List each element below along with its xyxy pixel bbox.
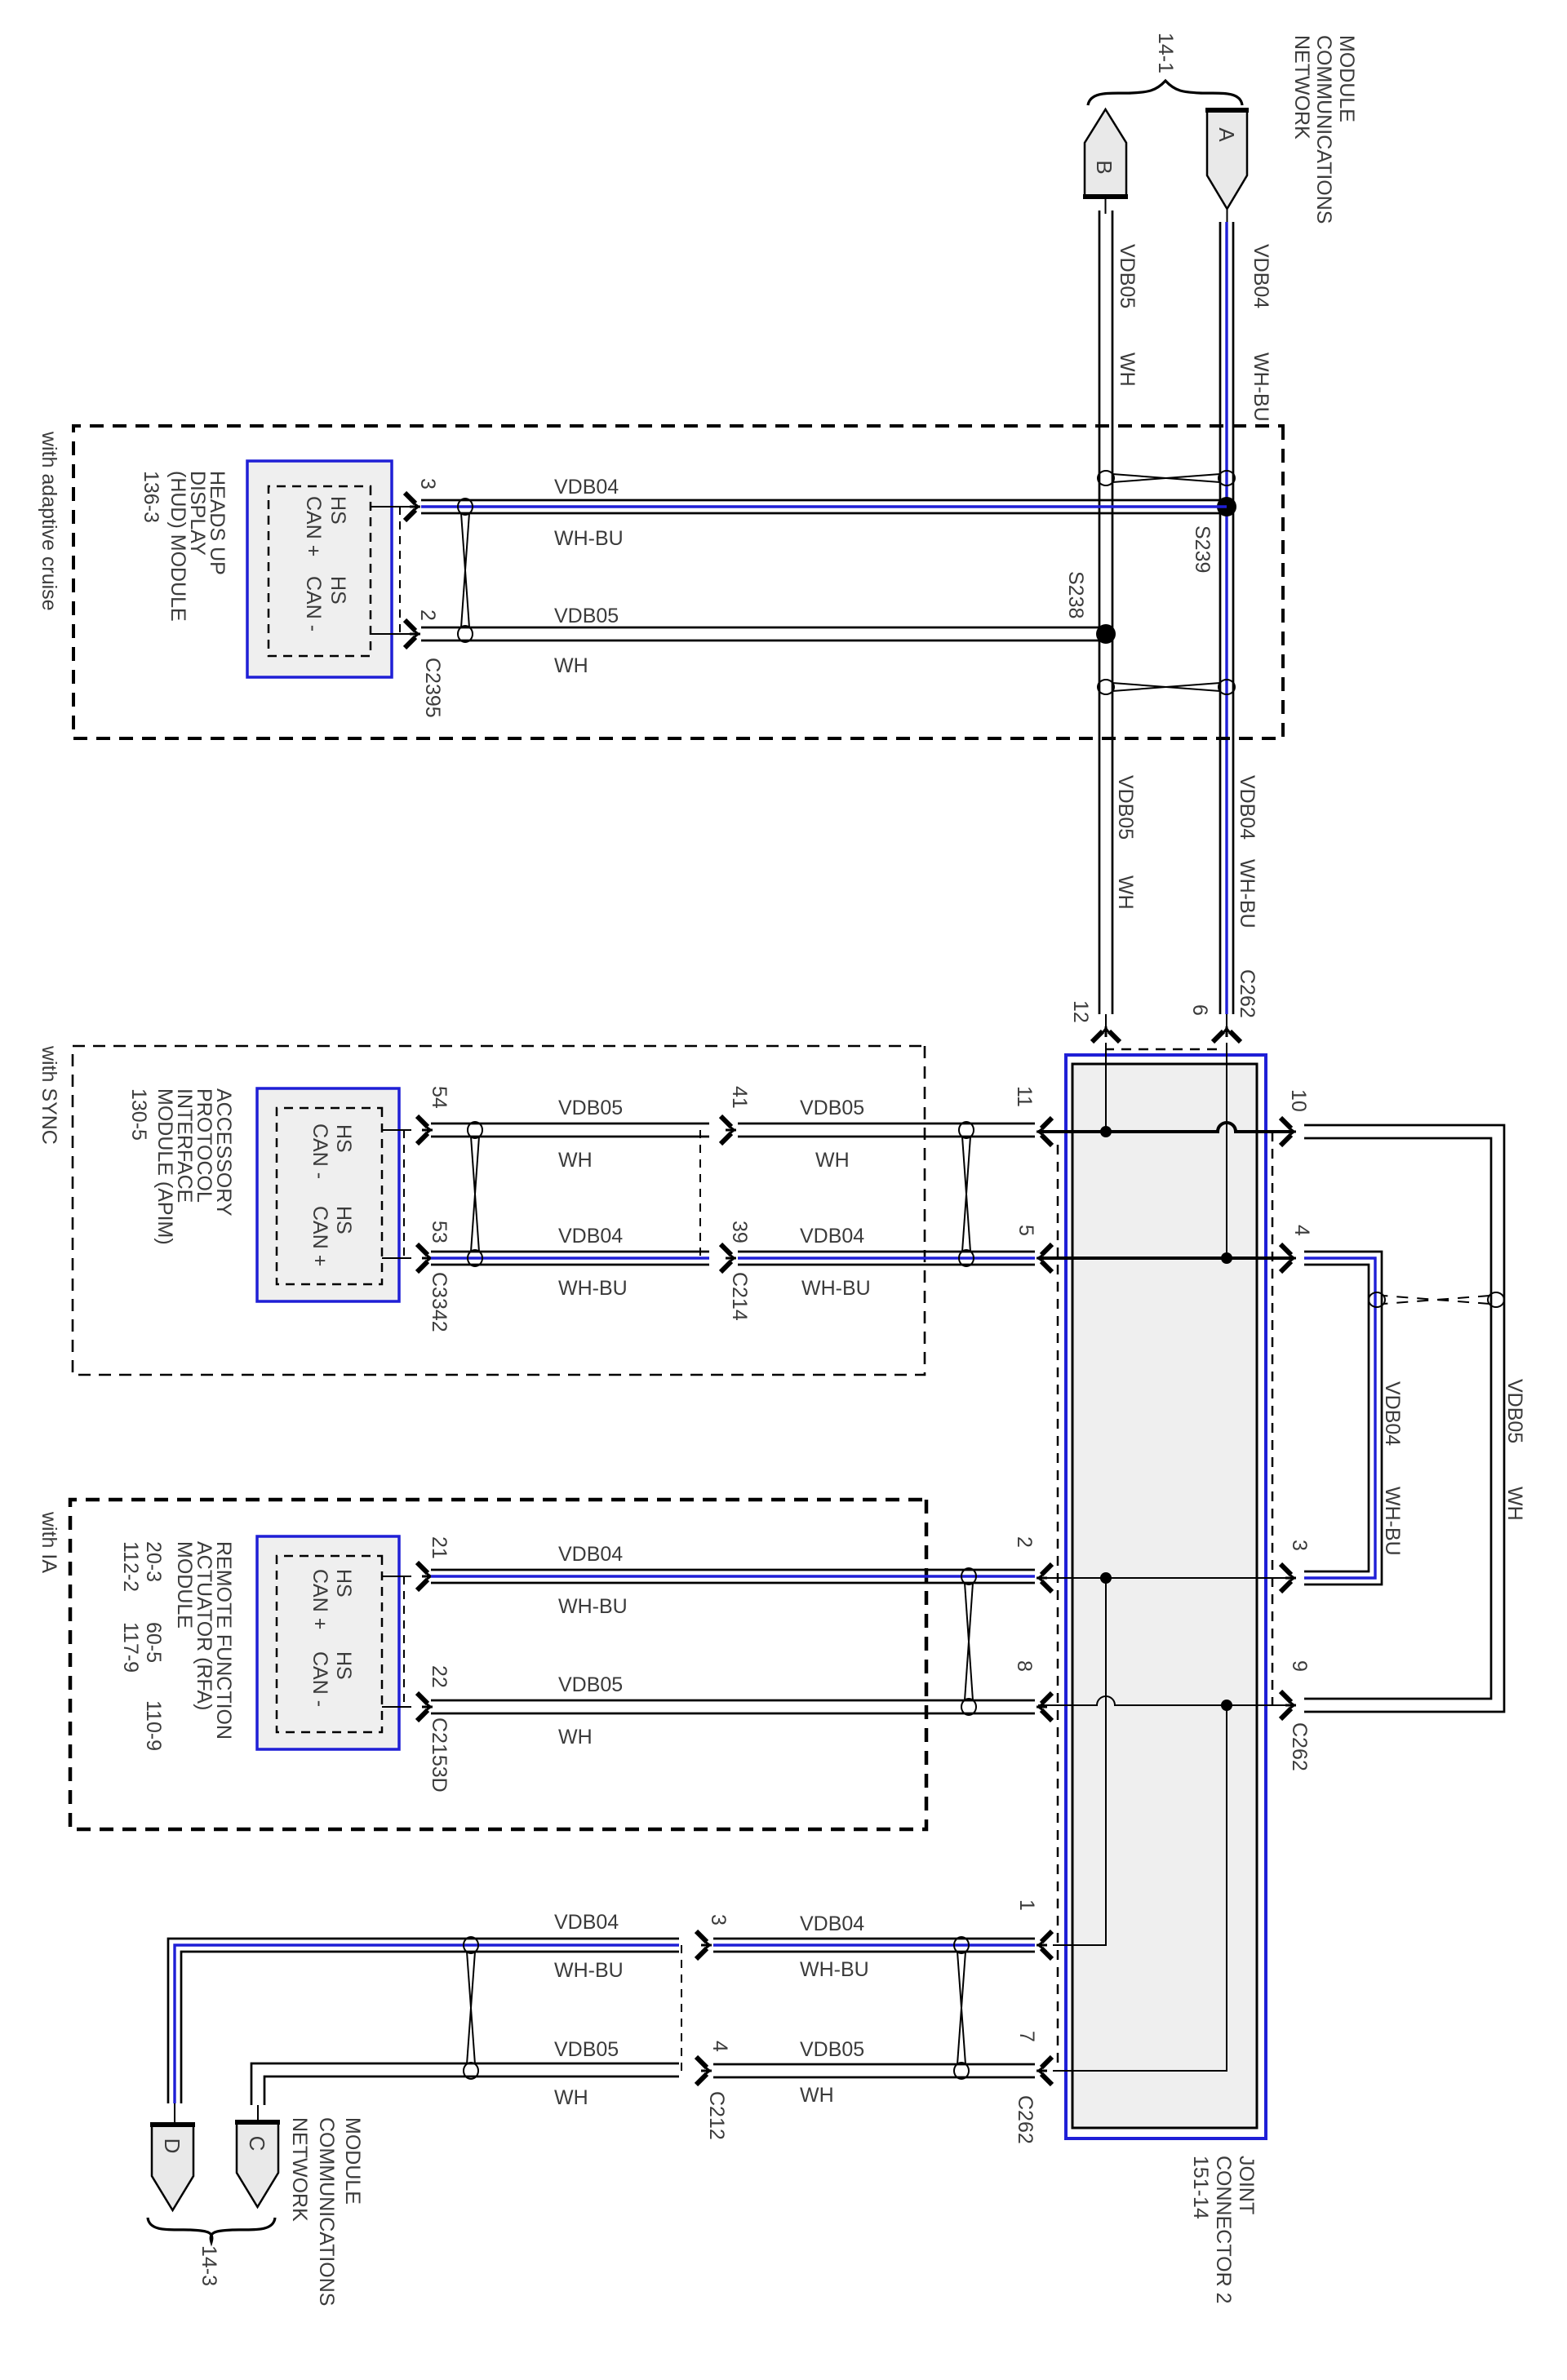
connector C214 arrows [721,1116,736,1144]
connector C212 arrows [696,1931,712,1959]
C262 pin 10 arrow [1281,1118,1296,1146]
svg-text:WH: WH [1503,1487,1526,1521]
svg-text:VDB05: VDB05 [1116,244,1139,308]
svg-text:HS: HS [326,496,349,525]
svg-text:with SYNC: with SYNC [38,1045,60,1145]
connector C214 dashed line [699,1130,701,1258]
C262 pin 7 arrow [1037,2057,1052,2085]
svg-text:WH-BU: WH-BU [558,1277,628,1300]
svg-text:3: 3 [416,478,439,490]
svg-text:3: 3 [707,1914,730,1926]
svg-text:WH: WH [1114,875,1137,910]
junction dot pin1/bus2 [1100,1572,1112,1584]
C262 pin 2 arrow [1037,1564,1052,1592]
C262 pin 9 arrow [1281,1691,1296,1719]
splice S238 [1096,624,1116,644]
svg-text:COMMUNICATIONS: COMMUNICATIONS [1312,35,1335,224]
svg-text:WH-BU: WH-BU [554,1959,624,1982]
off-page connector C [237,2122,278,2207]
svg-text:HS: HS [326,576,349,605]
svg-text:WH-BU: WH-BU [558,1595,628,1618]
svg-text:NETWORK: NETWORK [288,2117,311,2222]
svg-text:7: 7 [1015,2031,1038,2042]
svg-text:MODULE: MODULE [341,2117,364,2205]
dashed box: with SYNC [73,1046,925,1375]
svg-text:110-9: 110-9 [142,1700,165,1751]
wire VDB04 WH-BU (C214 39 to joint connector 5) [738,1251,1035,1253]
wire VDB05 WH loop (pin 10 to pin 9) [1304,1125,1504,1712]
C262 pin 1 arrow [1037,1931,1052,1959]
svg-text:WH: WH [554,654,588,677]
wire VDB05 WH (C212-4 to connector C) [251,2063,679,2105]
twisted pair symbol (APIM pair lower) [468,1122,482,1138]
wire VDB05 WH (bus B row) [1105,197,1107,214]
svg-text:HS: HS [332,1569,355,1598]
svg-text:VDB04: VDB04 [1381,1381,1404,1446]
svg-text:WH: WH [558,1726,593,1748]
svg-text:22: 22 [428,1665,451,1688]
svg-text:VDB04: VDB04 [800,1225,864,1248]
twisted pair symbol (APIM pair upper) [959,1122,974,1138]
svg-text:1: 1 [1015,1899,1038,1911]
wire VDB04 WH-BU (C212-3 to connector D) [168,1939,679,2103]
twisted pair symbol (bottom pair upper) [954,1937,969,1953]
svg-text:C262: C262 [1014,2095,1037,2144]
svg-text:VDB04: VDB04 [1236,775,1258,840]
C262 pin 8 arrow [1037,1693,1052,1721]
C262 pin 6 arrow [1213,1026,1241,1042]
svg-text:C214: C214 [728,1272,751,1321]
svg-text:MODULE: MODULE [1335,35,1358,122]
svg-text:14-3: 14-3 [198,2245,220,2286]
svg-text:VDB05: VDB05 [1114,775,1137,840]
svg-text:11: 11 [1013,1086,1036,1107]
svg-text:39: 39 [728,1221,751,1243]
twisted pair symbol (RFA pair) [961,1568,976,1584]
svg-text:VDB05: VDB05 [800,1097,864,1119]
svg-text:20-3: 20-3 [142,1541,165,1582]
svg-text:130-5: 130-5 [127,1088,150,1141]
twisted pair symbol (HUD pair) [458,499,473,515]
off-page connector B [1085,109,1126,197]
HUD pin 2 lead and arrow [371,633,411,635]
HUD inner dashed box [269,486,371,656]
wire VDB05 WH (APIM 54 to C214) [431,1123,709,1125]
APIM pin 53 lead and arrow [382,1257,411,1259]
svg-text:HS: HS [332,1206,355,1234]
C262 pin 3 arrow [1281,1564,1296,1592]
wire VDB04 WH-BU (HUD pin 3 to S239) [421,499,1227,502]
bus VDB04 pins 5-4 (thick) [1038,1256,1291,1260]
dashed box: with adaptive cruise [73,426,1283,738]
svg-text:WH-BU: WH-BU [1250,352,1272,422]
svg-text:VDB04: VDB04 [800,1912,864,1935]
wire VDB04 WH-BU (bus A row) [1227,209,1228,225]
svg-text:S238: S238 [1064,571,1087,618]
svg-text:WH: WH [1116,352,1139,387]
svg-text:WH: WH [800,2084,834,2107]
wire VDB04 WH-BU (pin1 to C212-3) [713,1938,1035,1940]
C262 pin 5 arrow [1037,1244,1052,1272]
connector C3342 dashed line [403,1130,405,1258]
svg-text:21: 21 [428,1536,451,1559]
HUD pin 3 lead and arrow [371,506,411,507]
svg-text:C262: C262 [1236,969,1258,1018]
svg-text:NETWORK: NETWORK [1290,35,1313,140]
svg-text:2: 2 [416,609,439,621]
svg-text:CONNECTOR 2: CONNECTOR 2 [1212,2156,1235,2304]
svg-text:VDB05: VDB05 [1503,1379,1526,1443]
svg-text:S239: S239 [1191,525,1214,573]
svg-text:WH-BU: WH-BU [800,1958,869,1981]
RFA pin 21 lead and arrow [382,1576,411,1577]
svg-text:HS: HS [332,1124,355,1153]
svg-text:JOINT: JOINT [1235,2156,1258,2214]
svg-text:WH: WH [815,1149,850,1172]
splice S239 [1217,497,1236,516]
svg-text:6: 6 [1188,1004,1211,1016]
connector C262 dashed boundary (left side) [1107,1048,1217,1051]
svg-text:VDB04: VDB04 [558,1225,623,1248]
svg-text:C2153D: C2153D [428,1717,451,1793]
wire VDB04 WH-BU (RFA 21 to joint connector 2) [431,1569,1035,1571]
svg-text:VDB05: VDB05 [558,1097,623,1119]
connector C262 dashed boundary (bottom side) [1057,1145,1059,2070]
svg-text:CAN -: CAN - [309,1124,331,1179]
svg-text:C3342: C3342 [428,1272,451,1332]
svg-text:VDB04: VDB04 [558,1543,623,1566]
JOINT CONNECTOR 2 inner black box [1072,1064,1257,2128]
svg-text:12: 12 [1069,1000,1092,1023]
svg-text:VDB05: VDB05 [554,2038,619,2061]
svg-text:C212: C212 [705,2091,728,2140]
pin 6 internal line [1226,1043,1227,1258]
svg-text:VDB05: VDB05 [558,1673,623,1696]
svg-text:CAN +: CAN + [309,1569,331,1629]
svg-text:53: 53 [428,1221,451,1243]
JOINT CONNECTOR 2 blue box [1066,1055,1266,2138]
svg-text:CAN +: CAN + [309,1206,331,1266]
svg-text:with IA: with IA [38,1511,60,1573]
wire VDB04 WH-BU loop (pin 4 to pin 3) [1304,1252,1382,1584]
C262 pin 4 arrow [1281,1244,1296,1272]
module: HEADS UP DISPLAY (HUD) blue box [247,461,392,677]
svg-text:MODULE (APIM): MODULE (APIM) [153,1088,176,1245]
svg-text:VDB04: VDB04 [554,1911,619,1934]
connector C262 dashed boundary (top side) [1272,1132,1274,1705]
svg-text:D: D [160,2138,184,2154]
svg-text:151-14: 151-14 [1189,2156,1212,2219]
svg-text:with adaptive cruise: with adaptive cruise [38,431,60,611]
wire VDB05 WH (RFA 22 to joint connector 8) [431,1700,1035,1702]
svg-text:C: C [245,2136,269,2152]
svg-text:VDB04: VDB04 [554,476,619,499]
svg-text:41: 41 [728,1086,751,1109]
module: RFA blue box [257,1536,399,1749]
connector C2395 dashed line [399,507,401,634]
svg-text:WH-BU: WH-BU [1236,859,1258,929]
bus VDB05 pins 11-10 (thick) with hop over pin6 line [1038,1123,1291,1132]
APIM inner dashed box [277,1108,382,1284]
connector C2153D dashed line [403,1576,405,1707]
RFA pin 22 lead and arrow [382,1706,411,1708]
svg-text:136-3: 136-3 [140,471,162,523]
svg-text:(HUD) MODULE: (HUD) MODULE [166,471,189,622]
svg-text:10: 10 [1287,1089,1310,1112]
svg-text:4: 4 [708,2041,731,2052]
RFA inner dashed box [277,1556,382,1732]
wire VDB04 WH-BU (APIM 53 to C214) [431,1251,709,1253]
svg-text:WH-BU: WH-BU [801,1277,871,1300]
bus VDB05 pins 8-9 (thin) with hop over pin1 line [1038,1696,1291,1705]
svg-text:60-5: 60-5 [142,1622,165,1663]
APIM pin 54 lead and arrow [382,1129,411,1131]
svg-text:WH-BU: WH-BU [554,527,624,550]
svg-text:VDB05: VDB05 [554,605,619,627]
brace 14-3 [148,2218,275,2242]
wire VDB05 WH (HUD pin 2 to S238) [421,627,1106,629]
brace 14-1 [1088,81,1242,105]
svg-text:112-2: 112-2 [119,1541,142,1592]
svg-text:3: 3 [1288,1540,1311,1551]
off-page connector A [1207,110,1247,209]
wire VDB05 WH (pin7 to C212-4) [713,2063,1035,2066]
svg-text:117-9: 117-9 [119,1622,142,1673]
pin 12 internal line [1105,1043,1107,1132]
module: APIM blue box [257,1088,399,1301]
svg-text:B: B [1092,160,1116,174]
svg-text:WH-BU: WH-BU [1381,1487,1404,1556]
svg-text:54: 54 [428,1086,451,1109]
pin 1 internal line [1053,1578,1106,1945]
junction dot pin7/bus8 [1221,1700,1232,1711]
connector C212 dashed line [681,1945,682,2071]
svg-text:C2395: C2395 [421,658,444,718]
svg-text:14-1: 14-1 [1154,33,1177,73]
svg-text:A: A [1214,127,1239,142]
svg-text:2: 2 [1013,1536,1036,1548]
svg-text:HS: HS [332,1651,355,1680]
svg-text:WH: WH [554,2086,588,2109]
svg-text:9: 9 [1288,1660,1311,1672]
svg-text:VDB05: VDB05 [800,2038,864,2061]
junction dot pin6/bus5 [1221,1252,1232,1264]
twisted pair symbol (A/B pair, left) [1219,471,1235,485]
bus VDB04 pins 2-3 (thin) [1038,1577,1291,1579]
off-page connector D [152,2125,193,2210]
svg-text:4: 4 [1290,1225,1313,1236]
wire VDB05 WH (C214 41 to joint connector 11) [738,1123,1035,1125]
svg-text:CAN -: CAN - [309,1651,331,1707]
svg-text:8: 8 [1013,1660,1036,1672]
svg-text:COMMUNICATIONS: COMMUNICATIONS [315,2117,338,2306]
C262 pin 11 arrow [1037,1118,1052,1146]
twisted pair symbol (A/B pair, right) [1219,680,1235,694]
svg-text:WH: WH [558,1149,593,1172]
svg-text:MODULE: MODULE [173,1541,196,1629]
svg-text:VDB04: VDB04 [1250,244,1272,308]
dashed box: with IA [70,1500,926,1829]
twisted pair symbol (bottom pair lower) [464,1937,478,1953]
junction dot pin12/bus11 [1100,1126,1112,1137]
twisted pair symbol (loop pair) [1488,1292,1504,1307]
svg-text:CAN +: CAN + [302,496,325,556]
C262 pin 12 arrow [1092,1026,1120,1042]
svg-text:5: 5 [1014,1225,1037,1236]
svg-text:C262: C262 [1288,1722,1311,1771]
pin 7 internal line [1053,1705,1227,2071]
svg-text:CAN -: CAN - [302,576,325,632]
